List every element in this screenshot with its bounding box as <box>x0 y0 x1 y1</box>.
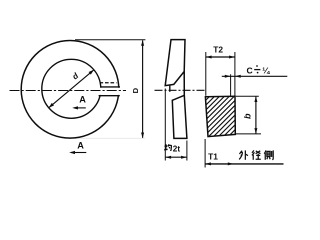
dimension line D <box>142 40 144 137</box>
section hatching <box>166 86 284 140</box>
2t extension line right <box>186 141 188 161</box>
label 側 (kanji path) <box>264 150 273 159</box>
svg-text:D: D <box>131 87 140 93</box>
dimension line T1 / baseline <box>205 163 283 165</box>
D extension line bottom (faint) <box>75 137 145 139</box>
svg-text:d: d <box>71 71 81 82</box>
side view: right edge continuation <box>183 72 185 96</box>
arrowhead C left (points right) <box>225 75 231 78</box>
arrowhead T1 right <box>228 162 234 165</box>
dimension line 2t <box>165 156 187 158</box>
split upper cut line <box>100 86 120 88</box>
arrowhead C right (points left) <box>235 75 241 78</box>
side view: lower coil outline <box>172 95 187 138</box>
dimension line T2 <box>206 56 235 58</box>
arrowhead b top <box>254 96 257 102</box>
svg-text:T1: T1 <box>208 151 218 161</box>
T2 extension line right / outer edge extension <box>234 52 236 96</box>
D extension line top <box>75 39 145 41</box>
svg-text:¼: ¼ <box>262 65 270 75</box>
b extension line bottom <box>236 133 261 135</box>
side view center line <box>155 89 206 91</box>
chamfer extension line <box>230 74 232 96</box>
section view: trapezoid outline <box>205 96 235 136</box>
svg-text:A: A <box>77 140 84 150</box>
arrowhead d upper <box>89 70 94 75</box>
arrowhead D bottom <box>141 133 144 139</box>
arrowhead T1 left <box>205 162 211 165</box>
label 約 (kanji path) <box>165 144 172 150</box>
view arrow A (inside circle) <box>74 107 86 109</box>
arrowhead T2 right <box>229 56 235 59</box>
arrowhead T2 left <box>206 56 212 59</box>
arrowhead b bottom <box>254 128 257 134</box>
svg-text:C: C <box>246 65 252 75</box>
leader line C <box>222 75 287 77</box>
svg-text:b: b <box>243 113 253 119</box>
dimension line d (diagonal) <box>49 70 94 108</box>
svg-text:T2: T2 <box>213 45 223 55</box>
label D <box>131 87 140 93</box>
label approx-equals (drawn) <box>254 65 260 73</box>
split lower cut line <box>99 95 120 97</box>
b extension line top <box>236 95 259 97</box>
dimension line b <box>255 97 257 134</box>
label 外 (kanji path) <box>239 150 248 159</box>
arrowhead 2t left <box>165 156 171 159</box>
T2 extension line left <box>205 52 207 96</box>
label 径 (kanji path) <box>252 150 261 159</box>
side view: lower coil end stub <box>169 86 171 92</box>
T1 extension line left <box>204 139 206 168</box>
front view: inner circle <box>42 59 101 118</box>
2t extension line left <box>164 89 166 161</box>
svg-text:2t: 2t <box>173 145 181 154</box>
side view: upper coil outline <box>165 40 185 86</box>
split gap mask <box>97 88 121 95</box>
arrowhead d lower <box>49 103 54 108</box>
front view: outer circle <box>21 41 119 139</box>
arrowhead 2t right <box>181 156 187 159</box>
label b <box>243 113 253 119</box>
svg-text:A: A <box>79 95 86 105</box>
arrowhead D top <box>141 40 144 46</box>
split hidden edge (dashed) <box>100 82 117 84</box>
front view horizontal center line <box>10 90 127 92</box>
view arrow A (below circle) <box>71 152 86 154</box>
